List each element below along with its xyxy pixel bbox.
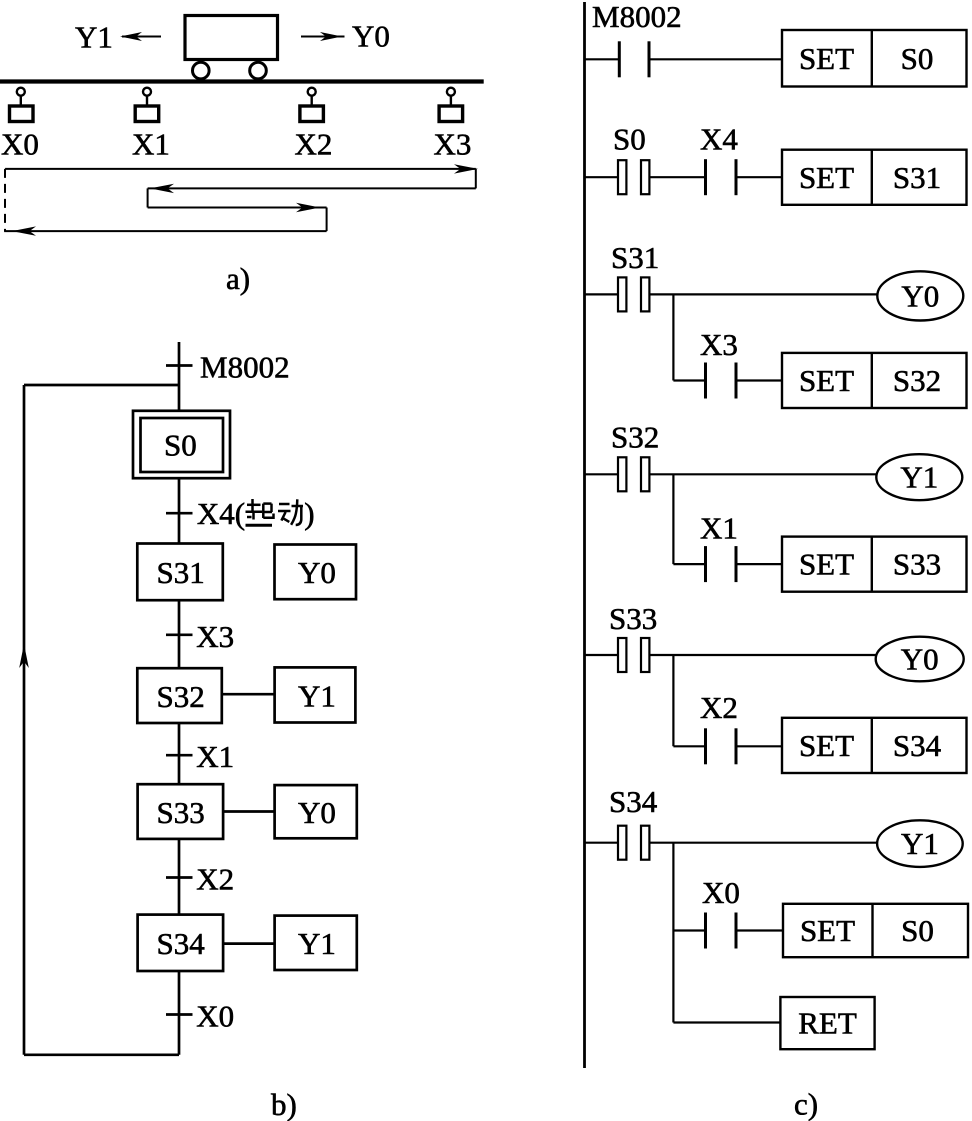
svg-text:Y1: Y1 [298,926,336,961]
box RET [780,997,874,1049]
coil Y1 [876,454,962,500]
svg-text:X1: X1 [132,127,170,162]
transition tick X0 [166,1013,193,1016]
action box Y1 (S32) [275,667,356,722]
svg-text:Y1: Y1 [75,20,113,55]
svg-text:X4(: X4( [197,496,245,531]
arrow Y0 right [301,36,345,38]
STL contact S31 [618,277,626,311]
limit switch X3 [447,88,455,96]
svg-text:X2: X2 [700,690,738,725]
rung 2 wire [585,176,619,178]
coil Y0 [877,271,963,320]
svg-text:Y1: Y1 [900,460,938,495]
svg-text:Y0: Y0 [298,555,336,590]
rung 4 wire [585,473,619,475]
sub-rung wire [673,929,705,931]
svg-text:S0: S0 [613,122,646,157]
contact X3 [704,363,707,399]
hanzi qi [246,499,274,525]
motion path segment 1 (right) [5,168,476,170]
svg-text:S31: S31 [611,240,659,275]
coil Y0 [876,637,964,682]
svg-text:S31: S31 [893,160,941,195]
contact X4 [704,159,707,195]
svg-text:): ) [304,496,314,531]
motion path corner right [475,169,477,189]
box SET S33 [782,537,967,592]
motion path segment 2 (left) [148,187,476,189]
svg-text:b): b) [271,1087,297,1121]
box SET S31 [782,150,967,205]
loop left wire (vertical) [23,385,26,1055]
rung 1 wire [585,58,620,60]
sub-rung wire [673,745,705,747]
svg-text:X0: X0 [1,127,39,162]
action box Y0 (S31) [275,545,357,600]
svg-text:S33: S33 [609,601,657,636]
transition tick X3 [166,633,193,636]
motion path corner [326,208,328,232]
wire S33 to Y0 [223,810,275,813]
svg-text:Y0: Y0 [298,795,336,830]
svg-text:S34: S34 [609,784,658,819]
box SET S0 [783,904,968,957]
svg-text:M8002: M8002 [592,0,682,34]
svg-text:c): c) [794,1087,818,1121]
svg-text:X0: X0 [702,875,740,910]
limit switch X0 [17,88,25,96]
limit switch X2 [308,88,316,96]
box SET S32 [782,353,967,408]
hanzi dong [278,499,303,525]
svg-text:X3: X3 [700,327,738,362]
svg-text:S33: S33 [157,795,205,830]
svg-text:SET: SET [799,363,854,398]
svg-text:S0: S0 [901,41,934,76]
svg-text:Y1: Y1 [298,679,336,714]
limit switch X1 [143,88,151,96]
svg-text:X0: X0 [196,999,234,1034]
RET wire [673,1021,780,1023]
transition tick X1 [166,754,193,757]
action box Y0 (S33) [275,785,357,838]
svg-text:X1: X1 [700,511,738,546]
transition tick X2 [166,876,193,879]
step box S32 [137,668,222,723]
svg-text:X4: X4 [700,122,738,157]
svg-text:S34: S34 [157,926,206,961]
svg-text:S33: S33 [893,547,941,582]
rung 6 wire [585,842,619,844]
arrow Y1 left [122,36,161,38]
contact M8002 [618,41,621,77]
svg-text:X3: X3 [196,619,234,654]
step box S33 [138,784,224,839]
coil Y1 [877,820,963,867]
svg-text:a): a) [226,261,250,296]
cart wheel left [193,62,210,79]
svg-text:SET: SET [799,160,854,195]
wire S32 to Y1 [222,693,275,696]
svg-text:X3: X3 [434,127,472,162]
svg-text:S32: S32 [611,420,659,455]
box SET S34 [782,718,967,773]
action box Y1 (S34) [275,916,357,970]
step box S31 [137,544,223,601]
box SET S0 [782,30,967,87]
sub-rung wire [673,563,705,565]
cart wheel right [250,62,267,79]
svg-text:S0: S0 [164,428,197,463]
left power rail [583,2,586,1068]
STL contact S0 [618,160,626,194]
svg-text:X1: X1 [196,739,234,774]
branch wire down [672,655,674,746]
svg-text:RET: RET [798,1006,857,1041]
svg-text:S0: S0 [901,913,934,948]
STL contact S34 [618,826,626,860]
initial step S0 double box [133,411,230,478]
loop up arrow [19,644,29,668]
loop bottom wire [24,1053,179,1056]
svg-text:Y0: Y0 [901,278,939,313]
motion path segment 4 (left) [4,230,327,232]
loop top wire [24,384,179,387]
contact X2 [704,728,707,764]
svg-text:S32: S32 [157,679,205,714]
svg-text:X2: X2 [196,862,234,897]
svg-text:S34: S34 [893,728,942,763]
rung 3 wire [585,293,619,295]
STL contact S33 [618,638,626,672]
svg-text:S32: S32 [893,363,941,398]
svg-text:SET: SET [800,913,855,948]
transition tick M8002 [166,364,193,367]
track rail [0,79,484,83]
svg-text:S31: S31 [157,555,205,590]
cart body [185,16,278,60]
branch wire down [672,294,674,380]
branch wire down [672,843,674,1023]
main state rail (vertical) [178,342,181,1055]
motion path dashed return [4,169,6,231]
contact X0 [704,913,707,949]
svg-text:X2: X2 [295,127,333,162]
svg-text:Y0: Y0 [901,642,939,677]
svg-text:SET: SET [799,547,854,582]
contact X1 [704,546,707,582]
svg-text:Y0: Y0 [352,19,390,54]
svg-text:SET: SET [799,41,854,76]
wire S34 to Y1 [223,942,275,945]
motion path segment 3 (right) [148,207,327,209]
STL contact S32 [618,457,626,491]
transition tick X4 [166,512,193,515]
rung 5 wire [585,654,619,656]
svg-text:M8002: M8002 [200,350,290,385]
branch wire down [672,474,674,564]
sub-rung wire [673,379,705,381]
motion path corner [147,188,149,207]
svg-text:SET: SET [799,728,854,763]
svg-text:Y1: Y1 [901,826,939,861]
step box S34 [138,915,224,971]
